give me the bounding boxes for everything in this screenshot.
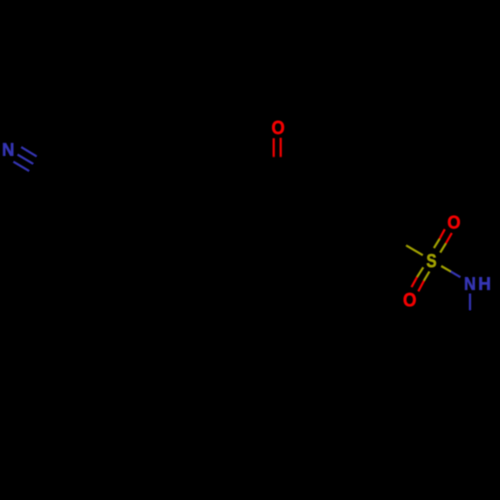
atom label H (on sulfonamide N2)	[479, 277, 489, 290]
atom label N2 (sulfonamide N)	[465, 277, 475, 290]
double bond S1=O4 line right	[424, 272, 429, 281]
double bond S1=O3 line left	[434, 239, 440, 248]
triple bond N1#C2 line middle	[18, 155, 34, 164]
atom label S1 (sulfonyl S)	[427, 254, 436, 267]
atom label O4 (sulfonyl O lower)	[404, 293, 416, 306]
double bond S1=O3 line right	[440, 244, 446, 253]
single bond N2-C (methyl)	[469, 294, 471, 311]
atom label O3 (sulfonyl O upper)	[448, 216, 460, 229]
double bond C=O2 line right	[280, 138, 282, 157]
single bond S1-N2	[441, 266, 451, 272]
double bond C=O2 line left	[273, 138, 275, 157]
single bond C(aryl)-S1	[390, 236, 406, 246]
triple bond N1#C2 line lower	[13, 162, 29, 171]
triple bond N1#C2 line upper	[13, 147, 51, 180]
atom label N1 (nitrile N)	[3, 143, 13, 156]
double bond S1=O4 line left	[417, 267, 423, 277]
atom label O2 (ketone O)	[272, 121, 284, 134]
